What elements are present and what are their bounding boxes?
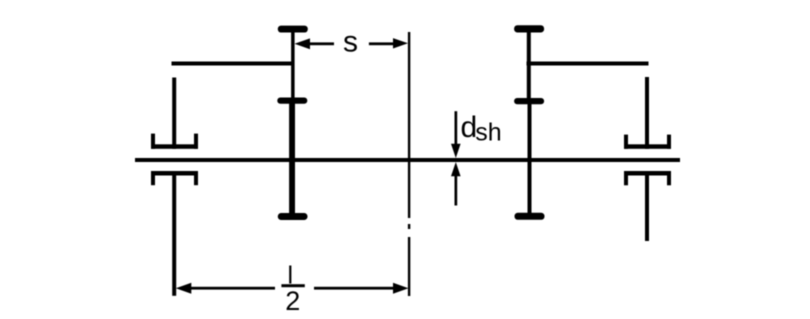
main shaft: [135, 158, 680, 162]
right upper gear top face bar: [514, 25, 544, 32]
svg-text:2: 2: [285, 286, 300, 316]
left bearing upper cup: [151, 134, 198, 149]
right bearing lower support line: [645, 176, 649, 242]
l/2 dimension line right segment: [314, 287, 393, 290]
d_sh lower leader line: [455, 175, 458, 206]
left bearing lower cup: [151, 171, 198, 185]
d_sh upper leader line: [455, 111, 458, 145]
l/2 dimension right arrow: [393, 283, 409, 294]
centerline between gears (dash-dot): [408, 32, 410, 296]
l/2 fraction bar: [281, 284, 304, 287]
svg-text:s: s: [343, 26, 358, 59]
l/2 dimension left arrow: [176, 283, 192, 294]
s dimension line left segment: [309, 42, 335, 45]
right bearing upper support line: [645, 77, 649, 149]
s dimension line right segment: [369, 42, 394, 45]
left lower gear body line: [289, 103, 295, 214]
l/2 dimension line left segment: [190, 287, 275, 290]
right gear mesh bar: [514, 98, 544, 104]
upper countershaft left segment: [172, 62, 295, 66]
s dimension right arrow: [393, 38, 408, 48]
d_sh lower arrow (up): [451, 162, 461, 176]
left upper gear body line: [291, 31, 295, 99]
right upper gear body line: [527, 31, 531, 98]
s dimension left arrow: [295, 38, 311, 49]
right lower gear body line: [528, 104, 532, 213]
left bearing upper support line: [172, 78, 176, 149]
svg-text:dsh: dsh: [461, 111, 502, 147]
left gear mesh bar: [277, 98, 307, 104]
d_sh upper arrow (down): [451, 144, 461, 158]
right bearing lower cup: [624, 171, 671, 185]
left lower gear bottom face bar: [278, 213, 308, 220]
left upper gear top face bar: [278, 26, 308, 33]
right bearing upper cup: [624, 135, 671, 149]
upper countershaft right segment: [527, 62, 649, 66]
left bearing lower support line: [172, 176, 176, 296]
right lower gear bottom face bar: [515, 213, 545, 220]
